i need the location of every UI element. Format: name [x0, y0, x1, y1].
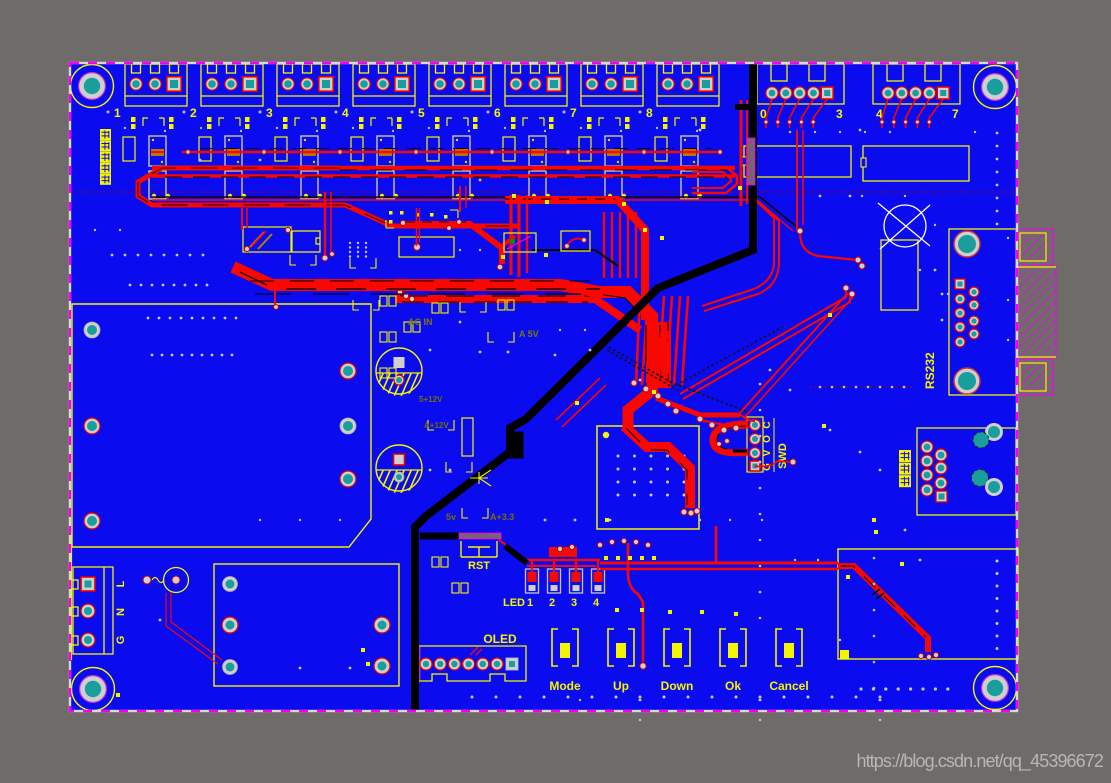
LED D3 — [570, 569, 583, 593]
fat loop curve left of SWD — [713, 424, 748, 453]
channel 3 silkscreen cluster — [276, 117, 326, 132]
bundle D pads in MCU — [681, 508, 700, 516]
left via rows — [111, 254, 209, 287]
J2 mounting pads — [954, 231, 980, 394]
mounting hole bottom-left — [72, 668, 115, 711]
extra texture dots — [94, 131, 1009, 721]
J3 label ethernet (CJK) — [899, 450, 911, 487]
mid component brackets — [290, 255, 514, 518]
transistor symbol — [470, 470, 491, 486]
svg-text:RS232: RS232 — [923, 352, 937, 389]
svg-text:https://blog.csdn.net/qq_45396: https://blog.csdn.net/qq_45396672 — [856, 751, 1103, 772]
mounting hole top-left — [71, 65, 114, 108]
designator 8 — [639, 106, 654, 120]
header J11 fan-out traces — [882, 99, 943, 128]
right via column — [996, 132, 999, 226]
channel 7 mosfet Q7 — [605, 171, 626, 199]
right mid dots — [819, 269, 944, 389]
scattered yellow vias — [116, 186, 904, 697]
pushbutton SW Ok — [720, 629, 746, 666]
svg-text:2: 2 — [549, 597, 555, 609]
terminal block connector P1 — [125, 64, 187, 106]
LED D4 — [592, 569, 605, 593]
channel 2 sense resistor R2b — [225, 136, 242, 166]
inductor feed pair — [417, 208, 420, 246]
trace bundle A (top row) — [183, 149, 718, 153]
terminal block connector P5 — [429, 64, 491, 106]
channel 7 resistor R7a — [579, 137, 591, 161]
terminal block connector P8 — [657, 64, 719, 106]
power elbow H1 — [403, 199, 645, 320]
svg-text:RST: RST — [468, 560, 490, 572]
M2 via column — [996, 560, 999, 651]
svg-text:Up: Up — [613, 679, 629, 693]
SWD black stub — [733, 450, 747, 453]
svg-text:8: 8 — [646, 106, 653, 120]
pushbutton SW Mode — [552, 629, 578, 666]
channel 8 mosfet Q8 — [681, 171, 702, 199]
mid grid vias 3x4 — [349, 242, 367, 258]
label OLED — [483, 632, 517, 646]
fuse F1 — [143, 568, 189, 593]
thin pair down-left of cluster — [556, 378, 606, 427]
black thin y250 — [532, 250, 618, 266]
channel 6 resistor R6a — [503, 137, 515, 161]
thick black trace: main ground bus — [415, 63, 757, 711]
via cluster under bundle — [631, 380, 739, 433]
board-edge silk segment — [71, 532, 73, 660]
J3 pads — [921, 423, 1003, 502]
label Cancel — [769, 679, 808, 693]
label Mode — [549, 679, 581, 693]
bundle D lower band — [395, 296, 640, 330]
header labels 4/7 — [876, 107, 959, 121]
DB9 shell keepout hatch — [1016, 229, 1056, 395]
channel 7 silkscreen cluster — [580, 117, 630, 132]
red river vertical lines — [604, 212, 688, 385]
M2 bottom via row — [859, 687, 949, 690]
bottom long pair I — [600, 526, 838, 569]
bundle D via fan — [391, 281, 414, 301]
pin header J10 — [757, 64, 844, 104]
channel 6 sense resistor R6b — [529, 136, 546, 166]
svg-text:G: G — [115, 636, 127, 645]
bundle A vias — [186, 150, 722, 154]
label Up — [613, 679, 629, 693]
IC U11 (shift register) — [861, 146, 969, 181]
svg-text:Down: Down — [661, 679, 694, 693]
trace bundle B (second row) — [152, 168, 735, 177]
vertical pair x798 — [797, 130, 803, 231]
channel 6 mosfet Q6 — [529, 171, 550, 199]
MCU U1 outline — [597, 426, 699, 529]
svg-text:3: 3 — [571, 597, 577, 609]
trace bundle lower thin pair — [152, 197, 797, 231]
IC U10 (relay driver) — [742, 146, 851, 177]
svg-text:3: 3 — [266, 106, 273, 120]
diode D11 — [292, 231, 320, 252]
designator 4 — [335, 106, 350, 120]
electrolytic capacitor C1 — [336, 348, 427, 401]
channel 2 mosfet Q2 — [225, 171, 246, 199]
terminal block connector P4 — [353, 64, 415, 106]
main wide bundle D — [233, 267, 652, 395]
channel 7 sense resistor R7b — [605, 136, 622, 166]
pushbutton SW Up — [608, 629, 634, 666]
LED label row — [503, 597, 600, 609]
svg-text:1: 1 — [527, 597, 533, 609]
header labels 0/3 — [760, 107, 843, 121]
channel 8 sense resistor R8b — [681, 136, 698, 166]
red bundle right of channel 8 — [741, 100, 747, 206]
mounting hole bottom-right — [974, 667, 1017, 710]
svg-text:4: 4 — [593, 597, 600, 609]
channel 1 resistor R1a — [123, 137, 135, 161]
small caps row (mid DC area) — [380, 296, 514, 593]
button area via rows — [471, 696, 882, 699]
J2 label RS232 — [923, 352, 937, 389]
svg-text:A+12V: A+12V — [424, 421, 449, 430]
label Down — [661, 679, 694, 693]
relay K1 pads — [222, 577, 390, 675]
pushbutton SW Cancel — [776, 629, 802, 666]
component X2 — [561, 231, 590, 251]
channel 4 silkscreen cluster — [352, 117, 402, 132]
pads E — [843, 285, 855, 297]
black trace bottom-left elbow — [505, 546, 527, 563]
vertical pair x242 — [242, 208, 247, 230]
short drop x275 — [274, 287, 276, 305]
RS232 connector J2 — [949, 229, 1016, 395]
narrow part near MCU-left — [462, 418, 473, 456]
olive net labels — [408, 317, 539, 522]
channel 2 silkscreen cluster — [200, 117, 250, 132]
svg-text:3: 3 — [836, 107, 843, 121]
svg-text:AC IN: AC IN — [408, 317, 433, 327]
channel 3 sense resistor R3b — [301, 136, 318, 166]
channel 6 silkscreen cluster — [504, 117, 554, 132]
vertical pair V2 — [511, 195, 527, 277]
label Ok — [725, 679, 741, 693]
channel 8 silkscreen cluster — [656, 117, 706, 132]
vertical pair x460 — [460, 186, 466, 212]
svg-text:O: O — [762, 435, 773, 443]
grid reference line horizontal — [70, 191, 1016, 193]
svg-text:5v: 5v — [446, 512, 456, 522]
bridge rectifier D10 — [243, 227, 291, 252]
relay K1 outline — [214, 564, 399, 686]
designator 6 — [487, 106, 502, 120]
svg-text:5+12V: 5+12V — [419, 395, 443, 404]
M2 bundle end pads — [918, 652, 938, 659]
PS1 via rows — [147, 317, 238, 357]
LED D2 — [548, 569, 561, 593]
channel 3 resistor R3a — [275, 137, 287, 161]
designator 2 — [183, 106, 198, 120]
designator 5 — [411, 106, 426, 120]
designator 7 — [563, 106, 578, 120]
AC input connector J20 (L/N/G) — [70, 567, 113, 654]
svg-text:Cancel: Cancel — [769, 679, 808, 693]
channel 5 silkscreen cluster — [428, 117, 478, 132]
SWD header J5 — [747, 417, 763, 472]
PS1 pads — [84, 322, 356, 529]
channel 5 resistor R5a — [427, 137, 439, 161]
regulator U7 — [881, 240, 918, 310]
reset button RST — [459, 533, 501, 557]
diagonal pair G (SWD to top) — [739, 293, 853, 421]
vertical pair F — [702, 197, 779, 311]
board keepout dashed border — [70, 63, 1017, 711]
output module M2 outline — [838, 549, 1018, 659]
svg-text:4: 4 — [342, 106, 349, 120]
J4 pads — [420, 647, 518, 670]
bundle D into MCU — [624, 392, 690, 508]
trace J (down to pad) — [628, 543, 643, 662]
channel 1 mosfet Q1 — [149, 171, 170, 199]
designator 3 — [259, 106, 274, 120]
OLED connector J4 — [412, 646, 526, 681]
channel 4 sense resistor R4b — [377, 136, 394, 166]
svg-text:1: 1 — [114, 106, 121, 120]
grid reference line right segment — [810, 386, 915, 388]
header J10 fan-out traces — [766, 99, 827, 128]
power module PS1 outline — [72, 304, 371, 547]
PCB board outline — [70, 63, 1017, 711]
trace bundle C (left loop) — [138, 168, 520, 226]
pin header J11 — [873, 64, 960, 104]
LED D1 — [526, 569, 539, 593]
svg-text:7: 7 — [570, 106, 577, 120]
terminal block connector P2 — [201, 64, 263, 106]
bright red patch — [549, 547, 577, 557]
svg-text:N: N — [115, 608, 127, 616]
channel 8 resistor R8a — [655, 137, 667, 161]
svg-text:7: 7 — [952, 107, 959, 121]
diagonal pair E (to upper right) — [680, 288, 850, 399]
channel 4 resistor R4a — [351, 137, 363, 161]
svg-text:C: C — [762, 421, 773, 428]
channel 1 silkscreen cluster — [124, 117, 174, 132]
designator 1 — [107, 106, 122, 120]
vertical pair x325 — [325, 192, 331, 256]
terminal block connector P3 — [277, 64, 339, 106]
channel 5 mosfet Q5 — [453, 171, 474, 199]
SWD stub trace — [755, 461, 792, 466]
no-connect crosshair marker — [878, 203, 930, 249]
J5 labels G V O C / SWD — [762, 418, 789, 472]
label RST — [468, 560, 490, 572]
river extra body — [660, 322, 668, 388]
RST keepout hatch (over black) — [459, 533, 501, 539]
channel 1 sense resistor R1b — [149, 136, 166, 166]
electrolytic capacitor C2 — [336, 445, 427, 498]
dashed night-layer diagonals — [600, 327, 783, 412]
svg-text:SWD: SWD — [777, 443, 789, 469]
svg-text:5: 5 — [418, 106, 425, 120]
top-right elbow trace O — [800, 233, 857, 260]
channel 2 resistor R2a — [199, 137, 211, 161]
J20 pads — [81, 577, 95, 647]
svg-text:A 5V: A 5V — [519, 329, 539, 339]
LED feed bundle — [522, 560, 600, 572]
silkscreen label: constant-current resistance (CJK) — [100, 129, 111, 185]
RST feed trace — [499, 540, 524, 560]
inductor L1 — [399, 237, 454, 257]
M2 internal bundle — [838, 566, 928, 652]
svg-text:OLED: OLED — [483, 632, 517, 646]
pushbutton SW Down — [664, 629, 690, 666]
scattered vias — [159, 129, 922, 702]
channel 3 mosfet Q3 — [301, 171, 322, 199]
MCU thermal vias — [617, 455, 686, 497]
ethernet jack J3 — [917, 428, 1016, 515]
svg-text:L: L — [115, 580, 127, 587]
branch to SWD vias — [656, 398, 749, 428]
J5 pads — [750, 420, 761, 472]
bundle B right hook — [692, 167, 737, 193]
sparse dot columns — [759, 383, 876, 690]
svg-text:LED: LED — [503, 597, 525, 609]
svg-text:V: V — [762, 449, 773, 456]
svg-text:A+3.3: A+3.3 — [490, 512, 514, 522]
dc-dc parts cluster — [386, 210, 461, 230]
channel 4 mosfet Q4 — [377, 171, 398, 199]
fuse feed traces — [166, 592, 222, 664]
J20 labels L N G — [115, 580, 127, 644]
svg-text:Ok: Ok — [725, 679, 741, 693]
terminal block connector P7 — [581, 64, 643, 106]
svg-text:2: 2 — [190, 106, 197, 120]
mounting hole top-right — [974, 66, 1017, 109]
svg-text:6: 6 — [494, 106, 501, 120]
U10 left keepout hatch (over black) — [747, 138, 755, 185]
watermark — [856, 751, 1103, 772]
channel 5 sense resistor R5b — [453, 136, 470, 166]
terminal block connector P6 — [505, 64, 567, 106]
svg-text:Mode: Mode — [549, 679, 581, 693]
J2 signal pins — [955, 279, 979, 347]
via cluster above LEDs — [557, 538, 656, 560]
snubber C10 — [504, 233, 536, 252]
